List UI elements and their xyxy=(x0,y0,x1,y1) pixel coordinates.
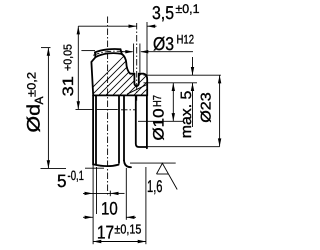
throat band pitch dash-dot arc xyxy=(93,51,123,55)
svg-text:Ø23: Ø23 xyxy=(197,92,213,123)
main vertical centerline xyxy=(107,17,109,197)
O10 dimension x=173.3, y 82.8..121.3 xyxy=(172,83,174,122)
svg-text:1,6: 1,6 xyxy=(147,177,163,196)
right exts xyxy=(144,74,221,76)
recess: bar C, fillet, recess bottom, corner, lower right face xyxy=(136,95,147,147)
interior thin line xyxy=(97,108,118,110)
svg-text:H7: H7 xyxy=(152,95,164,107)
bottom ext verticals xyxy=(92,164,94,244)
svg-text:5: 5 xyxy=(57,171,67,191)
svg-text:Ød: Ød xyxy=(24,104,44,133)
31 dimension x=78.3, y 26.2..109.4 xyxy=(77,26,79,109)
hole walls + V bottom xyxy=(134,74,138,87)
svg-text:Ø3: Ø3 xyxy=(153,33,174,54)
svg-text:max. 5: max. 5 xyxy=(178,91,195,139)
roughness symbol xyxy=(157,163,178,189)
throat top short ext (dA) xyxy=(41,47,51,49)
svg-text:17: 17 xyxy=(97,221,114,242)
lower bars xyxy=(92,95,94,164)
bottom-right chamfer visible edge xyxy=(127,85,147,95)
throat band top arc xyxy=(95,49,121,52)
svg-text:Ø10: Ø10 xyxy=(150,109,167,141)
hole wall exts xyxy=(133,44,135,73)
svg-text:31: 31 xyxy=(60,76,77,96)
dA dimension x=48.4, y 47.6..168.4 xyxy=(47,48,49,169)
svg-text:±0,2: ±0,2 xyxy=(25,72,39,97)
thin line left of band xyxy=(81,50,95,52)
bottom arc between bars xyxy=(94,164,119,166)
svg-text:±0,1: ±0,1 xyxy=(176,2,200,16)
17 dimension row y=241.5 inside arrows xyxy=(93,241,146,243)
throat band bottom arc xyxy=(95,53,122,57)
dA bottom ext segments at y=168.4 xyxy=(41,167,67,169)
5 dimension row y=193.4 outside arrows xyxy=(83,192,110,194)
svg-text:+0,05: +0,05 xyxy=(63,44,75,71)
O23 dimension x=219.6, y 75.2..146.6 xyxy=(219,75,221,146)
O3 leader row y=51.7 xyxy=(122,51,132,53)
svg-text:±0,15: ±0,15 xyxy=(114,222,141,237)
roughness ext line bottom right xyxy=(130,162,176,164)
svg-text:H12: H12 xyxy=(177,33,195,47)
10 dimension row y=217.3 outside arrows xyxy=(83,216,93,218)
bar B fillet to outer bottom stub xyxy=(124,161,131,168)
interior dash-dot xyxy=(121,109,135,111)
svg-text:10: 10 xyxy=(101,199,118,219)
svg-text:3,5: 3,5 xyxy=(152,2,174,23)
right face ext xyxy=(146,22,148,77)
3,5 dimension row y=26.2 xyxy=(78,25,136,27)
svg-text:-0,1: -0,1 xyxy=(68,168,85,183)
band right cap xyxy=(121,49,122,54)
rim bottom face xyxy=(93,94,147,96)
band left cap xyxy=(94,52,96,57)
right flank curve + ledge xyxy=(122,54,135,74)
left chamfer + left face xyxy=(91,57,95,95)
31 bottom ext (left piece) xyxy=(76,108,93,110)
step face + corner chamfer + right face of rim xyxy=(139,74,147,96)
hole centerline (dash-dot) xyxy=(136,23,138,101)
max 5 dimension x=192.5 outside arrows xyxy=(192,57,194,75)
hatch region (rim cross-section) xyxy=(74,44,206,106)
